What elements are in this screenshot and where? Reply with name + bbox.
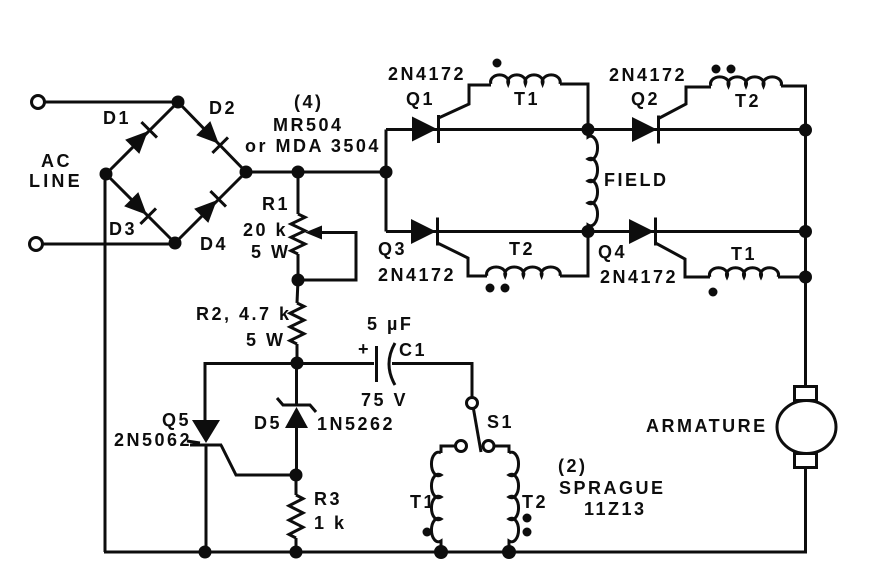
- node bridge right: [240, 166, 253, 179]
- node D5 / R3 / gate: [290, 469, 303, 482]
- svg-text:Q3: Q3: [378, 239, 407, 259]
- svg-text:R3: R3: [314, 489, 342, 509]
- svg-text:AC: AC: [41, 151, 72, 171]
- wire T1 to right rail: [778, 276, 806, 279]
- node R1 top: [292, 166, 305, 179]
- svg-text:Q2: Q2: [631, 89, 660, 109]
- node transformer left bottom: [434, 545, 448, 559]
- wire S1 to transformer right winding: [494, 446, 509, 453]
- diode D1: [124, 122, 157, 155]
- svg-text:1N5262: 1N5262: [317, 414, 395, 434]
- wire left rail down: [104, 174, 107, 552]
- svg-text:MR504: MR504: [273, 115, 344, 135]
- wire top SCR rail: [386, 128, 806, 131]
- wire Q5 cathode down: [205, 445, 208, 552]
- R1 wiper arrow: [305, 226, 322, 240]
- wire node to D5: [295, 363, 298, 405]
- svg-text:2N4172: 2N4172: [388, 64, 466, 84]
- wire D5 anode down: [295, 428, 298, 475]
- svg-text:SPRAGUE: SPRAGUE: [559, 478, 666, 498]
- svg-text:or MDA 3504: or MDA 3504: [245, 136, 381, 156]
- svg-text:75 V: 75 V: [361, 390, 408, 410]
- node R3 bottom rail: [290, 546, 303, 559]
- node bridge bottom: [169, 237, 182, 250]
- wire bottom rail: [104, 467, 806, 552]
- svg-text:LINE: LINE: [29, 171, 83, 191]
- svg-text:2N4172: 2N4172: [609, 65, 687, 85]
- SCR Q4: [629, 218, 656, 246]
- wire Q5 gate: [221, 445, 292, 475]
- node right rail bottom SCR row: [799, 225, 812, 238]
- motor ARMATURE: [777, 387, 836, 468]
- switch S1: [456, 398, 495, 453]
- svg-text:(4): (4): [294, 92, 324, 112]
- svg-text:5 W: 5 W: [246, 330, 286, 350]
- wire C1 to S1: [392, 364, 472, 398]
- wire top terminal to bridge top: [45, 101, 177, 104]
- svg-text:2N4172: 2N4172: [600, 267, 678, 287]
- phasing dots T2 top: [712, 65, 721, 74]
- node top right: [799, 124, 812, 137]
- wire Q1 gate lead: [439, 85, 492, 118]
- wire bridge edge top-left: [106, 102, 178, 174]
- node bottom rail / field: [582, 225, 595, 238]
- wire bottom terminal to bridge bottom: [43, 243, 175, 246]
- wire node to C1: [297, 362, 374, 365]
- node right rail T1: [799, 271, 812, 284]
- transformer winding T2 (Q2 gate): [711, 77, 782, 86]
- zener diode D5: [277, 398, 316, 428]
- diode D2: [195, 120, 228, 153]
- phasing dot T1 top: [493, 59, 502, 68]
- svg-text:D4: D4: [200, 234, 228, 254]
- svg-text:5 µF: 5 µF: [367, 314, 413, 334]
- svg-text:ARMATURE: ARMATURE: [646, 416, 768, 436]
- svg-text:(2): (2): [558, 456, 588, 476]
- SCR Q3: [411, 218, 438, 246]
- diode D3: [123, 191, 156, 224]
- wire bridge edge bottom-left: [106, 174, 175, 243]
- wire 2N5062 leader: [187, 441, 200, 443]
- wire node to Q5 branch: [205, 364, 297, 422]
- wire T2 to bottom rail node: [560, 237, 588, 276]
- node R1 bottom: [292, 274, 305, 287]
- phasing dots T2 Sprague: [523, 514, 532, 523]
- transformer winding T1 (Q4 gate): [710, 268, 779, 277]
- wire DC+ node row: [246, 171, 386, 174]
- svg-text:5 W: 5 W: [251, 242, 291, 262]
- wire branch vertical: [385, 130, 388, 232]
- SCR Q2: [632, 116, 659, 144]
- transformer winding T1 (Q1 gate): [491, 75, 561, 84]
- svg-text:20 k: 20 k: [243, 220, 288, 240]
- SCR Q1: [412, 115, 439, 143]
- node branch: [380, 166, 393, 179]
- node Q5 bottom rail: [199, 546, 212, 559]
- svg-text:S1: S1: [487, 412, 514, 432]
- wire right rail: [804, 130, 807, 388]
- wire Q3 gate lead: [438, 243, 488, 276]
- node bridge top: [172, 96, 185, 109]
- svg-text:2N4172: 2N4172: [378, 265, 456, 285]
- svg-text:Q1: Q1: [406, 89, 435, 109]
- svg-text:D5: D5: [254, 413, 282, 433]
- svg-text:+: +: [358, 339, 371, 359]
- AC line terminal top: [32, 96, 45, 109]
- svg-text:T1: T1: [410, 492, 436, 512]
- phasing dot T1 bottom: [709, 288, 718, 297]
- svg-text:1 k: 1 k: [314, 513, 347, 533]
- node top rail / field: [582, 123, 595, 136]
- capacitor C1: [377, 343, 396, 385]
- svg-text:D1: D1: [103, 108, 131, 128]
- svg-text:R2, 4.7 k: R2, 4.7 k: [196, 304, 292, 324]
- wire bottom SCR rail: [386, 230, 806, 233]
- svg-text:T1: T1: [514, 89, 540, 109]
- transformer winding T2 (Sprague right): [509, 452, 519, 552]
- resistor R1 (potentiometer): [297, 172, 300, 214]
- inductor FIELD: [588, 129, 598, 231]
- AC line terminal bottom: [30, 238, 43, 251]
- node R2 bottom / C1: [291, 357, 304, 370]
- transformer winding T1 (Sprague left): [431, 452, 441, 552]
- wire S1 to transformer left winding: [441, 446, 455, 453]
- wire bridge edge bottom-right: [175, 172, 246, 243]
- diode D4: [193, 191, 226, 224]
- wire Q2 gate lead: [659, 87, 712, 119]
- resistor R3: [295, 475, 298, 495]
- transformer winding T2 (Q3 gate): [487, 267, 561, 276]
- wire bridge edge top-right: [178, 102, 246, 172]
- svg-text:D3: D3: [109, 219, 137, 239]
- wire T2 to top right node: [781, 86, 806, 124]
- resistor R2: [297, 280, 298, 303]
- wire wiper return: [298, 233, 356, 281]
- svg-text:2N5062: 2N5062: [114, 430, 192, 450]
- svg-text:Q5: Q5: [162, 410, 191, 430]
- SCR Q5: [190, 420, 222, 445]
- svg-text:R1: R1: [262, 194, 290, 214]
- svg-text:C1: C1: [399, 340, 427, 360]
- wire Q4 gate lead: [656, 243, 711, 277]
- svg-text:Q4: Q4: [598, 242, 627, 262]
- wire T1 to top rail node: [560, 84, 588, 124]
- svg-text:11Z13: 11Z13: [584, 499, 647, 519]
- svg-text:T1: T1: [731, 244, 757, 264]
- phasing dots T2 bottom: [486, 284, 495, 293]
- svg-text:D2: D2: [209, 98, 237, 118]
- svg-text:FIELD: FIELD: [604, 170, 669, 190]
- node bridge left: [100, 168, 113, 181]
- svg-text:T2: T2: [735, 91, 761, 111]
- phasing dot T1 Sprague: [423, 528, 432, 537]
- node transformer right bottom: [502, 545, 516, 559]
- svg-text:T2: T2: [509, 239, 535, 259]
- svg-text:T2: T2: [522, 492, 548, 512]
